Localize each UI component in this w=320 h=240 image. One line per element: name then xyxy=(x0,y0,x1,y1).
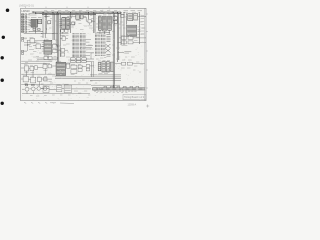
ground rail bottom-left xyxy=(22,93,90,95)
box column U25 xyxy=(78,65,86,71)
top-right net label row xyxy=(124,11,143,12)
vertical wire x93 lower-mid xyxy=(92,62,94,77)
IC RAM U6 (tall) xyxy=(103,16,107,31)
horizontal wires lower-left rows xyxy=(21,64,120,88)
punch hole 4 xyxy=(1,79,4,82)
U3 pin stubs xyxy=(59,20,70,27)
crystal Y1 xyxy=(76,15,86,19)
U5-U7 labels above xyxy=(98,14,111,16)
mid-left annotations xyxy=(29,37,57,57)
J1 pin net name labels xyxy=(27,15,30,32)
right margin net labels xyxy=(141,16,145,35)
J1 header label xyxy=(29,13,40,15)
sheet zone tick marks right edge xyxy=(146,14,148,88)
net stub wires right of RP2 xyxy=(86,39,93,55)
J2 side labels xyxy=(137,27,140,34)
wire bus to U11 region xyxy=(24,34,71,65)
transistor Q4 xyxy=(41,87,50,91)
resistor pack RP2 net rows (dense column) xyxy=(80,34,86,57)
punch hole bottom xyxy=(1,102,4,105)
gate row1 lower-left: U17 xyxy=(35,66,43,70)
small box above U8 xyxy=(121,14,124,17)
scattered net name annotations xyxy=(25,13,145,96)
driver U30 xyxy=(111,62,114,71)
IC U2 (beside U1) xyxy=(38,19,42,23)
gate U14 (mid lower) xyxy=(59,49,68,57)
flip-flop U31 xyxy=(57,86,62,92)
U11 labels xyxy=(28,37,40,49)
gate row2: U20 xyxy=(29,77,36,83)
sheet zone tick marks top edge xyxy=(26,7,131,9)
IC bottom pin wires U5-U7 xyxy=(97,30,111,34)
bus signal name labels xyxy=(44,11,117,12)
resistor pack RP1 net rows (dense column) xyxy=(72,34,79,57)
svg-text:LM520: LM520 xyxy=(21,9,30,13)
U8 labels xyxy=(113,16,117,26)
U31-33 labels xyxy=(43,84,69,85)
IC U11 counter (mid-left) xyxy=(44,40,52,54)
sheet title text above frame xyxy=(19,4,34,7)
U1 label above xyxy=(31,17,42,19)
U4 labels xyxy=(88,18,95,26)
punch hole top xyxy=(6,9,10,13)
U24/U25 labels xyxy=(71,64,81,74)
svg-text:12059-A: 12059-A xyxy=(128,103,137,106)
mid region labels xyxy=(36,39,57,61)
revision table cell ticks xyxy=(93,88,144,90)
U3 label xyxy=(62,16,67,18)
box U23 right of U22 xyxy=(67,63,70,68)
wire bundle mid top xyxy=(44,16,86,26)
document number below frame xyxy=(128,103,137,106)
extra mid verticals xyxy=(47,13,57,46)
title text xyxy=(124,96,145,99)
IC RAM U5 (tall) xyxy=(98,17,101,31)
wire to net label row xyxy=(118,51,125,53)
box column U24 xyxy=(71,65,77,73)
U22 label xyxy=(56,60,61,62)
revision table band (bottom-right) xyxy=(93,88,146,90)
gate U33 xyxy=(43,86,49,92)
logic cluster right-mid row2 xyxy=(118,41,147,44)
vertical links lower-left xyxy=(27,69,46,87)
mid-right sparse wires xyxy=(86,46,94,60)
wire U10 to frame xyxy=(138,17,146,26)
Q labels xyxy=(25,83,40,85)
punch hole 2 xyxy=(2,36,5,39)
gate U11A xyxy=(27,38,44,43)
capacitor C1 (mid top) xyxy=(72,22,75,25)
gate row right y63 xyxy=(115,62,145,65)
connector J1 pin column (left edge) xyxy=(21,14,26,33)
transistor Q2 xyxy=(30,87,36,94)
svg-text:LM520-02-01: LM520-02-01 xyxy=(19,4,34,7)
oscillator gate U4 xyxy=(86,19,95,25)
right inner border line xyxy=(144,8,146,100)
title block box xyxy=(123,94,146,99)
left stub pins mid 2 xyxy=(21,50,27,54)
IC U3 CPU (top-middle) xyxy=(62,18,70,30)
wires U1 to bus area xyxy=(29,13,45,38)
revision table row3 text xyxy=(96,91,127,93)
U3 lower labels xyxy=(61,34,69,36)
bus tap ticks xyxy=(44,12,116,13)
IC U1 decoder (top-left) xyxy=(31,19,37,27)
sheet interior tone xyxy=(21,8,146,100)
small box mid x48 xyxy=(48,21,51,24)
revision table row2 text xyxy=(94,90,137,92)
row2 labels xyxy=(23,75,40,84)
transistor Q1 xyxy=(22,86,29,94)
drawing frame border xyxy=(21,8,146,100)
registration cross bottom-right xyxy=(146,105,149,108)
corner label LM520 xyxy=(21,9,30,13)
assorted mid labels xyxy=(79,24,88,30)
IC ROM U7 (tall) xyxy=(108,16,112,30)
flip-flop U32 xyxy=(64,85,71,93)
resistor R1 row below U1 xyxy=(33,29,40,31)
cluster U26 xyxy=(86,64,94,70)
driver labels xyxy=(98,61,110,74)
sheet zone tick marks bottom edge xyxy=(24,102,74,105)
decoder row cluster below RP columns xyxy=(71,58,94,63)
wires bottom cluster xyxy=(49,88,91,91)
row2 extra labels xyxy=(41,76,52,84)
U18 labels xyxy=(43,63,48,70)
left stub pins mid 1 xyxy=(21,37,23,41)
U13 labels + marks xyxy=(56,36,66,47)
bus left arrowheads xyxy=(33,11,38,14)
driver U28 xyxy=(102,62,106,72)
revision table small boxes above xyxy=(104,86,139,88)
latch U8 xyxy=(113,17,117,24)
wire run below crystal xyxy=(70,22,75,25)
resistor pack RP4 net rows (dense column) xyxy=(101,34,106,55)
address bus A0-A15 (top horizontal) xyxy=(33,12,122,15)
boxes below U11 xyxy=(37,56,58,59)
bus junction dots xyxy=(42,12,139,13)
transistor Q3 xyxy=(36,87,44,91)
extra mid-left wires and labels xyxy=(24,41,58,60)
U11 left pin stubs xyxy=(42,42,44,51)
driver U29 xyxy=(106,62,109,72)
U1 pin stubs xyxy=(29,21,31,26)
gate row1 lower-left: U15 xyxy=(21,66,29,71)
buffer U10 xyxy=(134,14,138,20)
boxes right of row1: U18 xyxy=(43,64,56,68)
resistor pack RP5 rows with crossover wires xyxy=(105,35,110,57)
gate U13 (mid) xyxy=(60,37,68,41)
gate U21B row2 extra xyxy=(44,77,53,81)
right-mid labels xyxy=(121,35,139,45)
junction dots mid verticals xyxy=(57,46,59,59)
bus drop wires (verticals) xyxy=(53,13,139,88)
scan noise speckle xyxy=(21,9,146,100)
punch hole 3 xyxy=(1,56,4,59)
buffer U9 xyxy=(128,14,133,21)
gate cluster U12A right of U11 xyxy=(53,44,61,52)
IC U22 timing gen (lower-middle, dense) xyxy=(56,62,65,75)
Y1 labels xyxy=(76,14,83,21)
net label row right-mid xyxy=(124,52,131,53)
smudge text below frame left xyxy=(50,102,56,104)
resistors above transistors xyxy=(25,84,34,86)
long wires lower-middle xyxy=(55,62,121,80)
revision band left end box xyxy=(93,88,98,90)
gate row1 lower-left: U16 xyxy=(29,66,34,71)
row1 labels xyxy=(24,65,34,73)
gate cluster below U3 xyxy=(60,29,69,33)
gate row2: U21 xyxy=(37,77,47,81)
junction dots mid-left xyxy=(27,29,53,46)
logic cluster right-mid row1 xyxy=(119,36,146,39)
resistor pack RP3 net rows (dense column) xyxy=(95,34,100,55)
wire row lower-left upper xyxy=(21,60,52,62)
driver U27 xyxy=(98,63,101,71)
gate row2 lower-left: U19 xyxy=(21,76,29,82)
gate U11B xyxy=(33,44,44,49)
connector J2 ladder (right) xyxy=(127,25,137,36)
